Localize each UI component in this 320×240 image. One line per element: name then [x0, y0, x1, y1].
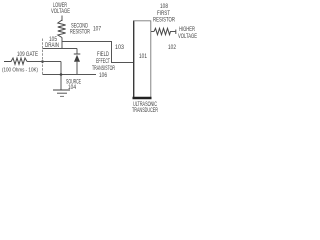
svg-text:109 GATE: 109 GATE [17, 52, 38, 58]
svg-text:FIRST: FIRST [157, 11, 170, 17]
label SECOND RESISTOR [70, 24, 90, 36]
label ULTRASONIC TRANSDUCER [132, 102, 158, 114]
node gate junction dot [41, 60, 44, 63]
svg-text:102: 102 [168, 45, 177, 51]
node source junction dot [60, 73, 63, 76]
svg-text:TRANSDUCER: TRANSDUCER [132, 108, 158, 114]
svg-text:VOLTAGE: VOLTAGE [51, 9, 70, 15]
label FIELD EFFECT TRANSISTOR 106 [92, 52, 115, 79]
svg-text:RESISTOR: RESISTOR [153, 18, 175, 24]
wire gate horizontal [27, 61, 61, 63]
resistor R108 first resistor (horizontal zigzag) [151, 28, 176, 34]
wire ground stem [60, 75, 62, 90]
svg-text:EFFECT: EFFECT [96, 59, 110, 65]
svg-text:101: 101 [139, 54, 148, 60]
svg-text:TRANSISTOR: TRANSISTOR [92, 66, 115, 72]
wire drain horizontal [43, 48, 78, 50]
resistor R-gate (100 Ohms - 10K) horizontal zigzag [4, 58, 27, 64]
resistor R107 second resistor (vertical zigzag) [58, 20, 66, 38]
svg-text:VOLTAGE: VOLTAGE [178, 34, 197, 40]
svg-text:(100 Ohms - 10K): (100 Ohms - 10K) [2, 68, 38, 74]
transistor Q106 channel bar (light vertical line) [42, 39, 44, 75]
diode D1 (protection, cathode up) [74, 49, 81, 75]
wire drain node 103 (drain to transducer) [62, 42, 134, 63]
label SOURCE 104 [66, 80, 81, 92]
svg-text:103: 103 [115, 45, 125, 51]
ground [53, 90, 70, 96]
svg-text:FIELD: FIELD [97, 52, 109, 58]
wire source horizontal [43, 74, 97, 76]
label 105 DRAIN [45, 37, 59, 49]
label HIGHER VOLTAGE [178, 27, 197, 40]
label 108 FIRST RESISTOR [153, 4, 175, 24]
wire lower-voltage lead [61, 16, 63, 22]
svg-text:108: 108 [160, 4, 169, 10]
wire body stub down [60, 62, 62, 75]
svg-text:HIGHER: HIGHER [179, 27, 195, 33]
wire resistor bottom lead [61, 38, 63, 50]
svg-text:RESISTOR: RESISTOR [70, 30, 90, 36]
svg-text:107: 107 [93, 27, 102, 33]
svg-text:106: 106 [99, 73, 108, 79]
ultrasonic transducer 101 (rectangle) [133, 21, 152, 99]
label LOWER VOLTAGE [51, 3, 70, 15]
